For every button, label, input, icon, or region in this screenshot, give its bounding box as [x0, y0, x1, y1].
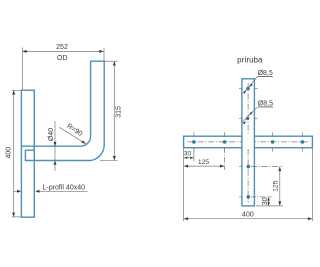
dimension 315 [100, 61, 123, 160]
vertical centerline upper [247, 83, 249, 135]
hole centerline ticks horizontal bar [194, 132, 303, 151]
svg-text:125: 125 [198, 159, 210, 166]
L-profile wall plate [21, 90, 34, 217]
svg-text:OD: OD [57, 55, 68, 62]
hole label Ø8,5 second [241, 101, 273, 125]
dimension 30 left [184, 148, 194, 221]
svg-text:Ø40: Ø40 [48, 128, 55, 141]
dimension Ø40 [48, 121, 56, 171]
dimension 125 right [251, 167, 283, 206]
svg-text:príruba: príruba [237, 56, 263, 65]
flange holes [192, 87, 304, 199]
dimension 125 left [184, 148, 225, 170]
svg-text:400: 400 [242, 212, 254, 219]
hole centerline ticks vertical bar [239, 89, 258, 197]
flange horizontal bar [184, 136, 313, 148]
dimension 252 / OD [22, 44, 104, 90]
radius leader R=90 [59, 123, 85, 144]
svg-text:L-profil 40x40: L-profil 40x40 [43, 184, 86, 191]
vertical centerline lower [247, 149, 249, 203]
dimension 30 right [251, 197, 272, 206]
title priruba [237, 56, 263, 65]
horizontal centerline [188, 141, 309, 143]
svg-text:125: 125 [273, 180, 280, 192]
svg-text:Ø8,5: Ø8,5 [258, 70, 273, 77]
svg-text:30: 30 [262, 197, 269, 205]
svg-text:400: 400 [5, 147, 12, 159]
dimension 400 bottom [184, 149, 313, 222]
svg-text:252: 252 [56, 44, 68, 51]
flange vertical bar [242, 79, 255, 206]
hole label Ø8,5 top [243, 70, 273, 93]
label L-profil 40x40 [13, 184, 87, 193]
svg-text:315: 315 [116, 106, 123, 118]
svg-text:Ø8,5: Ø8,5 [258, 101, 273, 108]
bracket tube outline [21, 61, 104, 160]
dimension 400 left [5, 90, 21, 217]
svg-text:30: 30 [184, 151, 192, 158]
